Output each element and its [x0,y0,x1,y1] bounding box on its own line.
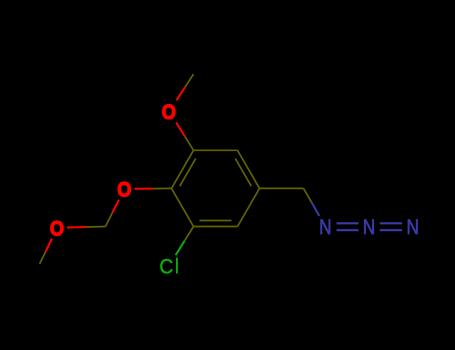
atom label N2 [363,215,375,239]
atom label Cl [159,256,177,279]
bond C3-O (methoxy) carbon half [185,136,194,150]
bond CH2-O (MOM) carbon half [86,226,105,229]
svg-text:O: O [162,101,176,125]
bond CH2-N1 carbon half [304,188,312,202]
bond C4-O (MOM ether) carbon half [153,187,172,189]
ring double bond C5=C6 (bottom edge) [194,221,238,227]
bond C4-O (MOM ether) oxygen half [134,188,153,190]
bond C1-CH2 (benzylic) [260,187,304,189]
ring bond C2-C3 (top edge) [194,149,238,151]
bond O-CH3 (methoxy) oxygen half [177,87,186,100]
svg-text:N: N [319,215,331,239]
ring double bond C1=C2 (upper-right edge) [235,150,259,188]
svg-text:O: O [117,178,131,202]
double bond N1=N2 [337,223,359,230]
svg-text:N: N [363,215,375,239]
bond O-CH3 (methoxy) carbon half [185,74,194,87]
bond C5-Cl carbon half [185,227,194,241]
bond O-CH2 (MOM) carbon half [106,213,113,226]
double bond N2=N3 [380,223,402,230]
svg-text:O: O [50,217,64,241]
atom label O (MOM, ring side) [117,178,131,202]
atom label O (MOM, methyl side) [50,217,64,241]
bond C5-Cl chlorine half [176,241,185,255]
svg-text:N: N [406,215,418,239]
ring bond C6-C1 (lower-right edge) [238,188,260,226]
bond O-CH2 (MOM) oxygen half [112,200,119,213]
atom label N3 [406,215,418,239]
bond C3-O (methoxy) oxygen half [176,123,185,137]
bond CH2-O (MOM) oxygen half [67,226,86,229]
ring bond C4-C5 (lower-left edge) [172,188,194,226]
atom label O (methoxy) [162,101,176,125]
ring double bond C3=C4 (upper-left edge) [172,150,196,188]
atom label N1 [319,215,331,239]
bond CH2-N1 nitrogen half [312,202,320,216]
svg-text:C: C [159,256,173,279]
bond O-CH3 (MOM terminal) carbon half [40,252,46,264]
bond O-CH3 (MOM terminal) oxygen half [46,239,52,252]
